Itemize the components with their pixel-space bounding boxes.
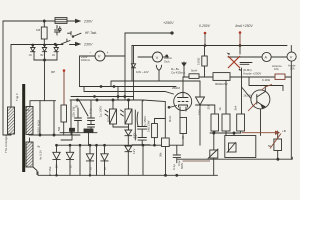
svg-text:4x 6,3V: 4x 6,3V: [39, 150, 43, 160]
svg-text:7k: 7k: [181, 135, 185, 139]
svg-text:5mH: 5mH: [191, 69, 197, 73]
svg-text:10A: 10A: [274, 67, 279, 71]
svg-text:1N: 1N: [52, 54, 55, 57]
svg-text:HF-Tast.: HF-Tast.: [85, 31, 97, 35]
svg-text:+: +: [107, 51, 109, 55]
svg-text:600µ: 600µ: [24, 108, 31, 112]
svg-text:4mA +250V: 4mA +250V: [235, 24, 253, 28]
svg-text:25k: 25k: [207, 104, 211, 109]
svg-text:B2: B2: [41, 54, 45, 57]
svg-text:+B: +B: [282, 129, 286, 133]
svg-text:36k: 36k: [159, 152, 163, 157]
svg-text:Anode +230V: Anode +230V: [243, 72, 261, 76]
svg-text:0.1µ: 0.1µ: [89, 108, 93, 114]
svg-text:22k 1W: 22k 1W: [72, 107, 76, 117]
svg-text:230V: 230V: [83, 20, 93, 24]
svg-text:1M: 1M: [36, 28, 41, 32]
svg-text:BY: BY: [69, 164, 73, 168]
svg-text:12V: 12V: [132, 149, 136, 154]
svg-text:0.1µ: 0.1µ: [172, 164, 176, 170]
svg-text:230V 4/1A: 230V 4/1A: [37, 120, 41, 134]
svg-text:BY: BY: [89, 166, 93, 170]
svg-text:9,8x ~12V: 9,8x ~12V: [136, 70, 149, 74]
svg-text:1k: 1k: [218, 107, 222, 111]
svg-text:BY: BY: [103, 166, 107, 170]
svg-text:0-250V: 0-250V: [199, 24, 211, 28]
svg-text:V: V: [156, 55, 159, 60]
svg-text:2k299: 2k299: [244, 94, 252, 98]
svg-text:1N: 1N: [29, 54, 32, 57]
svg-text:V: V: [290, 55, 293, 59]
svg-text:0.18Ω: 0.18Ω: [262, 78, 271, 82]
svg-text:10A: 10A: [290, 67, 295, 71]
svg-text:500V: 500V: [180, 163, 184, 169]
svg-text:2k4: 2k4: [234, 105, 238, 110]
svg-text:5k: 5k: [268, 144, 272, 148]
svg-text:1µ 160V: 1µ 160V: [99, 106, 103, 117]
svg-text:Ca 425mA: Ca 425mA: [171, 71, 185, 75]
svg-text:900Ω/2W: 900Ω/2W: [215, 82, 228, 86]
svg-text:12V: 12V: [132, 133, 136, 138]
svg-text:+250V: +250V: [163, 21, 174, 25]
svg-text:V: V: [98, 54, 101, 59]
svg-text:160Ω: 160Ω: [197, 57, 201, 65]
svg-text:RP: RP: [51, 70, 55, 74]
svg-text:Sich.: Sich.: [164, 60, 170, 64]
svg-text:TSL Anzeiger: TSL Anzeiger: [4, 135, 8, 153]
svg-text:0,1µ: 0,1µ: [106, 116, 110, 122]
svg-text:BY4SE: BY4SE: [48, 166, 52, 176]
svg-text:−: −: [90, 51, 92, 55]
svg-text:5k lin: 5k lin: [168, 115, 172, 122]
svg-text:5M: 5M: [57, 126, 61, 131]
svg-text:2B2M: 2B2M: [172, 86, 180, 90]
svg-text:100mA: 100mA: [81, 58, 90, 62]
svg-text:10Ω: 10Ω: [198, 109, 202, 115]
svg-text:Tug 4: Tug 4: [15, 93, 19, 101]
svg-text:BY: BY: [55, 164, 59, 168]
svg-text:230V: 230V: [83, 43, 93, 47]
svg-text:1k(L)3W: 1k(L)3W: [147, 120, 151, 132]
svg-text:4x: 4x: [37, 145, 41, 149]
